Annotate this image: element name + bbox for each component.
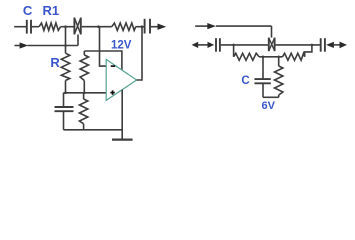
shunt resistor zigzag — [275, 66, 283, 95]
junction left bridge — [232, 44, 235, 47]
svg-text:R: R — [50, 55, 60, 70]
output wire — [151, 26, 158, 28]
shunt capacitor C lead — [262, 57, 264, 79]
crystal Y1 (X diagonals) — [74, 18, 80, 34]
crystal Y2 plates — [268, 38, 270, 52]
svg-text:C: C — [23, 3, 33, 18]
output coupling capacitor — [144, 19, 146, 34]
op-amp U1 — [106, 59, 136, 100]
svg-text:R1: R1 — [42, 3, 59, 18]
shunt capacitor bottom lead — [262, 83, 264, 97]
node A junction dot — [64, 44, 67, 47]
wire crystal to node B — [82, 26, 112, 28]
junction shunt R — [277, 56, 280, 59]
op-amp V- pin to ground — [121, 90, 123, 140]
node junction rail/R — [64, 25, 67, 28]
bottom joining wire — [263, 96, 279, 98]
bottom ground rail — [64, 129, 123, 131]
right horizontal resistor — [283, 53, 305, 60]
ground symbol — [112, 139, 133, 141]
bypass capacitor lead bottom — [63, 111, 65, 130]
crystal Y2 X diagonals — [269, 38, 275, 51]
crystal Y1 (plates) — [73, 18, 75, 35]
resistor R (vertical) — [61, 53, 69, 80]
node junction output feedback — [141, 25, 144, 28]
resistor R1 — [39, 23, 61, 30]
left series capacitor — [215, 38, 217, 52]
op-amp output wire — [137, 27, 142, 80]
junction R / plus row — [64, 92, 67, 95]
junction bias divider / plus row — [83, 92, 86, 95]
inverting input wire — [100, 27, 107, 66]
junction right bridge — [311, 44, 314, 47]
left horizontal resistor — [234, 53, 259, 60]
wire C to R1 — [32, 26, 39, 28]
output arrow — [158, 24, 167, 30]
resistor R2 (feedback, top rail) — [112, 23, 136, 30]
double arrow left port — [192, 42, 199, 48]
svg-text:C: C — [241, 75, 249, 87]
wire crystal to right cap — [276, 44, 321, 46]
svg-text:6V: 6V — [261, 100, 275, 112]
left bridge drop — [233, 45, 235, 57]
wire node A up to crystal bottom — [77, 35, 79, 46]
wire plus input row — [64, 92, 107, 94]
double arrow right port — [326, 42, 334, 48]
12V supply wire — [84, 51, 122, 70]
wire R1 to crystal Y1 — [61, 26, 74, 28]
wire middle row — [259, 56, 283, 58]
input arrow — [15, 45, 21, 47]
bypass capacitor lead top — [63, 93, 65, 107]
svg-text:12V: 12V — [111, 40, 132, 52]
wire input to C1 — [14, 26, 26, 28]
shunt capacitor C plates — [255, 78, 271, 80]
node B junction (to inverting input) — [97, 25, 100, 28]
R bottom lead — [65, 81, 67, 93]
wire input row (node A) — [28, 45, 79, 47]
minus sign — [111, 65, 116, 67]
capacitor C (series input cap, left circuit) — [26, 20, 28, 34]
wire down to crystal top — [271, 26, 273, 37]
bypass capacitor plates — [55, 106, 74, 108]
wire R2 to output cap — [135, 26, 144, 28]
junction shunt C — [262, 56, 265, 59]
right circuit top arrow wire — [195, 25, 208, 27]
plus sign — [110, 92, 114, 94]
right series capacitor — [320, 38, 322, 52]
resistor R2b (bias upper from 12V) — [83, 51, 85, 55]
resistor R3 (bias lower, to ground) — [83, 93, 85, 99]
right bridge jog — [305, 45, 312, 57]
wire rail junction down to node A — [65, 27, 67, 54]
wire cap to crystal — [221, 44, 268, 46]
shunt resistor lead — [278, 57, 280, 66]
